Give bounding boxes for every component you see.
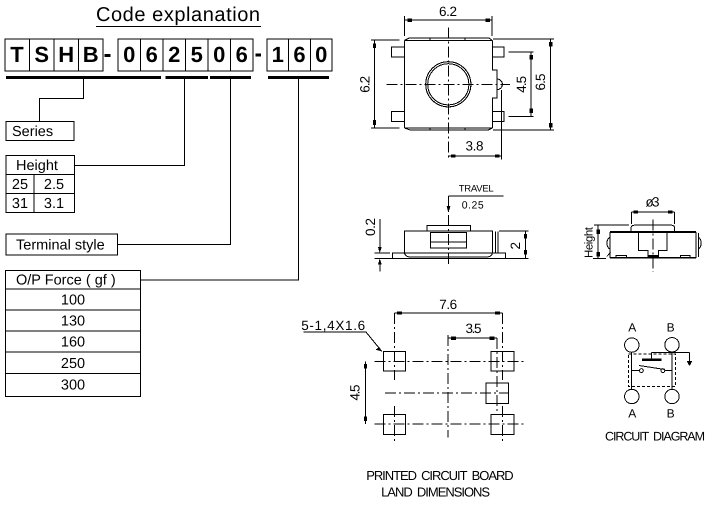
svg-text:Terminal style: Terminal style	[16, 238, 105, 254]
terminal circle A bottom	[625, 389, 639, 403]
svg-text:300: 300	[61, 378, 85, 394]
side view centerline	[448, 215, 450, 266]
pad top-right	[491, 351, 514, 371]
dimension 6.2 top	[405, 4, 493, 36]
title Code explanation	[96, 4, 261, 27]
terminal circle B top	[665, 338, 679, 352]
top lid line	[404, 38, 492, 41]
wire height connector	[75, 79, 185, 166]
contact right	[661, 369, 665, 373]
pad top-left	[384, 351, 406, 371]
svg-text:6: 6	[293, 42, 305, 67]
dimension 0.2	[363, 218, 393, 272]
code letter boxes TSHB	[5, 39, 103, 71]
height view corner tick	[607, 252, 611, 256]
svg-text:2.5: 2.5	[44, 177, 64, 193]
svg-text:CIRCUIT DIAGRAM: CIRCUIT DIAGRAM	[605, 430, 705, 444]
actuator stem	[651, 352, 653, 358]
svg-text:7.6: 7.6	[439, 297, 457, 312]
wire force connector	[141, 79, 299, 280]
svg-text:O/P Force ( gf ): O/P Force ( gf )	[16, 273, 116, 289]
switch arm	[639, 366, 664, 370]
dimension 4.5 right	[508, 52, 533, 116]
switch body dashed box	[628, 354, 675, 386]
button outer circle	[426, 62, 471, 107]
wire to left contact	[632, 370, 640, 372]
dimension 3.8 bottom	[448, 90, 501, 160]
svg-text:4.5: 4.5	[514, 76, 529, 93]
height view side bumps	[607, 238, 610, 249]
svg-text:250: 250	[61, 356, 85, 372]
svg-text:Height: Height	[584, 226, 596, 258]
pcb centerline row middle	[385, 392, 508, 394]
svg-text:3.8: 3.8	[466, 139, 484, 154]
height table	[6, 156, 75, 213]
terminal circle B bottom	[665, 389, 679, 403]
svg-text:2: 2	[508, 242, 523, 250]
svg-text:Height: Height	[16, 158, 58, 174]
svg-text:6.5: 6.5	[533, 74, 548, 91]
terminal tab bottom-right	[492, 111, 504, 121]
svg-text:5: 5	[191, 42, 203, 67]
pcb centerline vertical main	[447, 335, 449, 437]
height view plunger foot	[648, 255, 660, 258]
svg-text:6.2: 6.2	[358, 76, 373, 93]
svg-text:A: A	[628, 407, 636, 421]
svg-text:31: 31	[12, 196, 28, 212]
wire terminal connector	[118, 79, 231, 245]
press arrow	[687, 361, 693, 366]
wire left vertical	[631, 352, 633, 389]
side view body	[404, 231, 492, 253]
svg-text:Code explanation: Code explanation	[96, 4, 260, 26]
dimension 4.5 pcb	[348, 361, 367, 424]
bottom lid line	[404, 128, 492, 130]
dimension 7.6	[395, 297, 503, 315]
button inner circle	[428, 64, 469, 105]
svg-text:130: 130	[61, 314, 85, 330]
wire series connector	[40, 79, 84, 122]
height view centerline	[652, 220, 654, 273]
pcb centerline row bottom	[375, 423, 525, 425]
wire arrow drop	[689, 352, 691, 361]
travel label	[447, 184, 504, 214]
top view body	[404, 38, 497, 130]
svg-text:LAND DIMENSIONS: LAND DIMENSIONS	[381, 485, 490, 500]
svg-text:0: 0	[213, 42, 225, 67]
dimension dia 3	[631, 195, 674, 225]
contact left	[640, 369, 644, 373]
O/P force table	[5, 270, 140, 396]
underline bar terminal 06	[210, 76, 251, 79]
height view body	[610, 232, 699, 258]
label 5-1,4X1.6	[301, 318, 382, 352]
svg-text:B: B	[83, 42, 99, 67]
side view button	[427, 226, 470, 232]
svg-text:6.2: 6.2	[439, 4, 457, 19]
dash 1	[105, 54, 111, 57]
svg-text:ø3: ø3	[646, 195, 660, 210]
svg-text:160: 160	[61, 335, 85, 351]
code digit boxes 062506	[118, 39, 253, 71]
centerline horizontal	[387, 83, 510, 85]
pad bottom-left	[384, 415, 406, 435]
dimension 6.2 left	[358, 40, 400, 128]
svg-text:0.2: 0.2	[363, 218, 378, 236]
pad bottom-right	[491, 415, 514, 435]
top center tab	[430, 38, 465, 41]
bottom center tab	[430, 128, 465, 130]
height view button	[631, 225, 675, 232]
svg-text:4.5: 4.5	[348, 385, 363, 401]
svg-text:TRAVEL: TRAVEL	[459, 184, 494, 195]
height view plunger	[638, 233, 667, 257]
terminal tab top-right	[492, 47, 504, 57]
svg-text:100: 100	[61, 293, 85, 309]
dimension 3.5	[448, 321, 497, 340]
height view feet	[616, 256, 690, 258]
svg-text:A: A	[628, 321, 636, 335]
svg-text:B: B	[667, 407, 675, 421]
svg-text:0.25: 0.25	[462, 200, 484, 212]
underline bar force 160	[268, 76, 329, 79]
dash 2	[256, 54, 262, 57]
series label box	[6, 122, 74, 141]
svg-text:5-1,4X1.6: 5-1,4X1.6	[301, 318, 365, 333]
svg-text:B: B	[667, 321, 675, 335]
underline bar height 25	[166, 76, 209, 79]
svg-text:6: 6	[146, 42, 158, 67]
side view base flange	[392, 253, 505, 258]
side view inner block	[431, 233, 467, 249]
underline bar series TSHB-06	[6, 76, 161, 79]
wire actuator top	[652, 351, 690, 353]
svg-text:0: 0	[123, 42, 135, 67]
svg-text:0: 0	[315, 42, 327, 67]
terminal tab bottom-left	[391, 111, 404, 121]
svg-text:1: 1	[272, 42, 284, 67]
svg-text:Series: Series	[12, 124, 53, 140]
svg-text:3.1: 3.1	[44, 196, 64, 212]
dimension Height	[584, 225, 630, 258]
svg-text:2: 2	[168, 42, 180, 67]
svg-text:PRINTED CIRCUIT BOARD: PRINTED CIRCUIT BOARD	[366, 468, 514, 483]
code digit boxes 160	[267, 39, 332, 71]
terminal tab top-left	[391, 47, 404, 57]
dimension 2	[499, 231, 529, 259]
terminal circle A top	[625, 338, 639, 352]
svg-text:25: 25	[12, 177, 28, 193]
svg-text:6: 6	[236, 42, 248, 67]
centerline vertical	[447, 28, 449, 159]
pcb centerline left pads vertical	[394, 313, 396, 380]
side bump	[497, 79, 502, 90]
svg-text:T: T	[10, 42, 24, 67]
svg-text:3.5: 3.5	[466, 321, 482, 336]
wire right vertical	[671, 352, 673, 389]
dimension 6.5 right	[493, 39, 554, 131]
svg-text:H: H	[58, 42, 74, 67]
pad mid-right	[486, 383, 508, 403]
pcb centerline mid pad vertical	[496, 338, 498, 411]
wire to right contact	[665, 370, 672, 372]
svg-text:S: S	[34, 42, 49, 67]
pcb centerline right pads vertical	[501, 313, 503, 380]
pcb centerline row top	[375, 360, 525, 362]
terminal style box	[6, 234, 118, 255]
side view right terminal lines	[496, 232, 499, 254]
actuator plate	[642, 359, 661, 362]
